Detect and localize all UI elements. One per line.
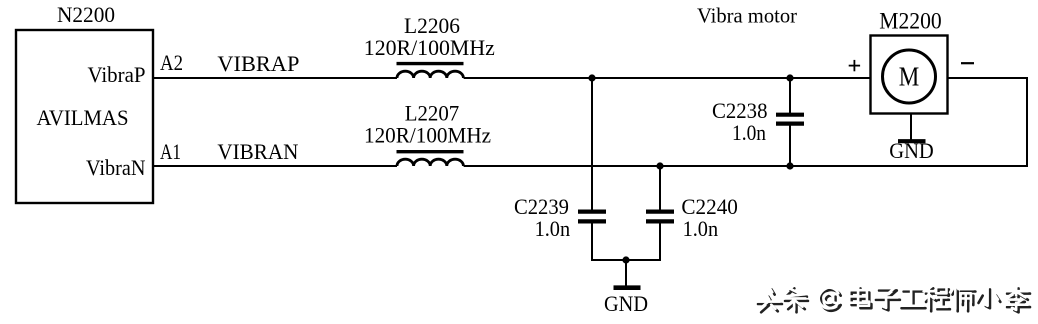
inductor L2207 ferrite bar bbox=[397, 150, 464, 153]
svg-text:1.0n: 1.0n bbox=[535, 216, 571, 241]
inductor L2207 coil bbox=[397, 159, 463, 166]
svg-text:120R/100MHz: 120R/100MHz bbox=[364, 35, 495, 60]
svg-text:VIBRAP: VIBRAP bbox=[217, 51, 299, 76]
wire VibraP pin to L2206 bbox=[153, 77, 397, 79]
wire C2238 to VIBRAN bbox=[789, 125, 791, 166]
wire ground rail bbox=[591, 259, 661, 261]
IC N2200 body bbox=[16, 30, 153, 203]
svg-text:VibraP: VibraP bbox=[88, 62, 146, 87]
svg-text:1.0n: 1.0n bbox=[732, 120, 766, 145]
svg-text:VIBRAN: VIBRAN bbox=[217, 139, 298, 164]
minus terminal sign bbox=[961, 62, 974, 64]
svg-text:AVILMAS: AVILMAS bbox=[37, 105, 129, 130]
wire L2207 to right loop bbox=[464, 165, 1028, 167]
junction VIBRAN / C2240 branch bbox=[656, 162, 663, 169]
capacitor C2240 bbox=[646, 212, 674, 222]
wire motor case to ground bbox=[910, 113, 912, 140]
wire VibraN pin to L2207 bbox=[153, 165, 397, 167]
svg-text:Vibra motor: Vibra motor bbox=[697, 3, 797, 27]
motor M2200 body bbox=[871, 36, 948, 114]
capacitor C2238 bbox=[776, 115, 804, 124]
svg-text:M: M bbox=[899, 62, 920, 92]
junction VIBRAP / C2238 bbox=[786, 74, 793, 81]
wire L2206 to motor plus node bbox=[464, 77, 871, 79]
svg-text:120R/100MHz: 120R/100MHz bbox=[364, 123, 491, 148]
inductor L2206 coil bbox=[397, 71, 463, 78]
wire VIBRAP down to C2239 bbox=[591, 78, 593, 210]
wire right loop down to VIBRAN bbox=[1026, 77, 1028, 167]
wire C2240 to ground rail bbox=[659, 222, 661, 261]
svg-text:N2200: N2200 bbox=[57, 2, 115, 27]
motor M2200 circle bbox=[883, 50, 936, 103]
ground symbol (motor) bbox=[898, 139, 926, 143]
inductor L2206 ferrite bar bbox=[397, 62, 464, 65]
wire C2239 to ground rail bbox=[591, 222, 593, 261]
ground symbol (capacitors) bbox=[614, 285, 641, 290]
junction VIBRAP / C2239 branch bbox=[588, 74, 595, 81]
svg-text:GND: GND bbox=[604, 291, 648, 316]
wire motor minus to right loop bbox=[948, 77, 1028, 79]
svg-text:A1: A1 bbox=[160, 139, 181, 164]
watermark shadow layer bbox=[756, 286, 1030, 312]
svg-text:M2200: M2200 bbox=[879, 8, 942, 34]
svg-text:A2: A2 bbox=[160, 50, 183, 75]
watermark white layer bbox=[756, 286, 1028, 310]
junction ground rail bbox=[622, 256, 629, 263]
svg-text:VibraN: VibraN bbox=[86, 155, 146, 180]
wire VIBRAN down to C2240 bbox=[659, 166, 661, 210]
wire VIBRAP to C2238 bbox=[789, 78, 791, 113]
junction VIBRAN / C2238 bbox=[786, 162, 793, 169]
svg-text:1.0n: 1.0n bbox=[683, 216, 719, 241]
wire rail junction to ground symbol bbox=[625, 260, 627, 286]
plus terminal sign bbox=[849, 60, 860, 71]
capacitor C2239 bbox=[578, 212, 606, 222]
